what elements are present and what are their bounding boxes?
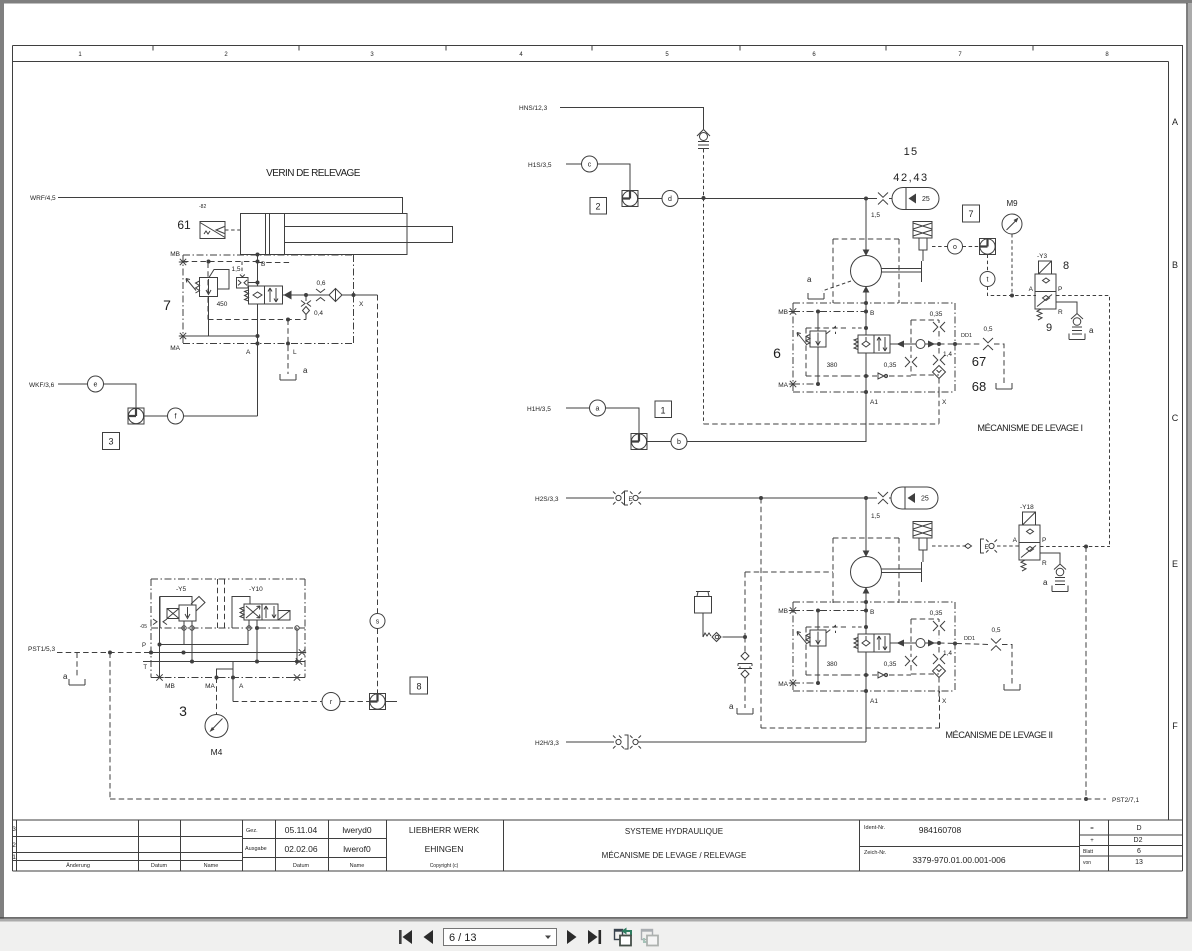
svg-text:6: 6 <box>773 345 781 361</box>
svg-text:=: = <box>1090 826 1094 832</box>
svg-text:o: o <box>953 244 957 251</box>
svg-text:MA: MA <box>170 345 180 352</box>
svg-text:Ausgabe: Ausgabe <box>245 846 267 852</box>
svg-text:1,4: 1,4 <box>943 351 952 358</box>
svg-text:A: A <box>1029 286 1034 293</box>
svg-text:Gez.: Gez. <box>246 828 258 834</box>
svg-text:A: A <box>1172 117 1178 127</box>
svg-text:9: 9 <box>1046 322 1052 334</box>
svg-text:WKF/3,6: WKF/3,6 <box>29 382 55 389</box>
svg-text:3: 3 <box>108 437 113 447</box>
svg-text:von: von <box>1083 860 1091 866</box>
svg-text:61: 61 <box>177 218 191 232</box>
svg-text:Datum: Datum <box>151 863 168 869</box>
svg-text:t: t <box>987 277 989 284</box>
svg-text:b: b <box>677 439 681 446</box>
svg-text:450: 450 <box>217 301 228 308</box>
svg-text:SYSTEME HYDRAULIQUE: SYSTEME HYDRAULIQUE <box>625 827 723 836</box>
svg-text:MA: MA <box>205 683 215 690</box>
svg-text:B: B <box>1172 260 1178 270</box>
svg-text:a: a <box>807 275 812 284</box>
svg-text:1,5: 1,5 <box>871 212 880 219</box>
svg-text:380: 380 <box>827 362 838 369</box>
svg-text:a: a <box>596 406 600 413</box>
svg-text:R: R <box>1058 309 1063 316</box>
svg-text:-Y5: -Y5 <box>176 586 187 593</box>
svg-text:-Y18: -Y18 <box>1020 504 1034 511</box>
svg-text:MB: MB <box>165 683 175 690</box>
svg-text:7: 7 <box>968 209 973 219</box>
svg-text:A: A <box>1013 537 1018 544</box>
svg-text:0,35: 0,35 <box>930 311 943 318</box>
svg-text:M9: M9 <box>1006 199 1018 208</box>
svg-text:0,6: 0,6 <box>316 280 325 287</box>
svg-text:-82: -82 <box>199 204 206 210</box>
svg-text:R: R <box>1042 560 1047 567</box>
svg-text:F: F <box>1172 721 1178 731</box>
svg-text:s: s <box>376 619 380 626</box>
svg-text:P: P <box>1058 286 1062 293</box>
svg-text:VERIN DE RELEVAGE: VERIN DE RELEVAGE <box>266 168 361 179</box>
svg-text:D: D <box>1136 825 1141 832</box>
svg-text:H1H/3,5: H1H/3,5 <box>527 406 551 413</box>
svg-text:0,5: 0,5 <box>983 326 992 333</box>
svg-text:1: 1 <box>12 854 16 861</box>
svg-text:8: 8 <box>416 682 421 692</box>
svg-text:E: E <box>1172 559 1178 569</box>
svg-text:a: a <box>1089 326 1094 335</box>
svg-text:42,43: 42,43 <box>893 172 929 184</box>
svg-text:6: 6 <box>1137 848 1141 855</box>
svg-text:MA: MA <box>778 382 788 389</box>
svg-text:a: a <box>63 672 68 681</box>
svg-text:MÉCANISME DE LEVAGE II: MÉCANISME DE LEVAGE II <box>945 730 1052 740</box>
svg-text:2: 2 <box>595 202 600 212</box>
svg-text:Blatt: Blatt <box>1083 849 1094 855</box>
svg-text:c: c <box>588 162 592 169</box>
svg-text:0,35: 0,35 <box>884 362 897 369</box>
svg-text:PST1/5,3: PST1/5,3 <box>28 646 55 653</box>
svg-text:984160708: 984160708 <box>919 825 962 835</box>
svg-text:lweryd0: lweryd0 <box>342 825 372 835</box>
svg-text:P: P <box>142 643 146 649</box>
svg-text:MÉCANISME DE LEVAGE I: MÉCANISME DE LEVAGE I <box>977 423 1082 433</box>
svg-text:L: L <box>293 349 297 356</box>
svg-text:H1S/3,5: H1S/3,5 <box>528 162 552 169</box>
svg-text:Zeich-Nr.: Zeich-Nr. <box>864 850 887 856</box>
svg-text:05.11.04: 05.11.04 <box>285 825 318 835</box>
svg-text:02.02.06: 02.02.06 <box>284 844 317 854</box>
svg-text:a: a <box>729 702 734 711</box>
svg-text:WRF/4,5: WRF/4,5 <box>30 195 56 202</box>
svg-text:Name: Name <box>204 863 219 869</box>
svg-text:-Y10: -Y10 <box>249 586 263 593</box>
svg-text:DD1: DD1 <box>964 636 975 642</box>
svg-text:A1: A1 <box>870 399 878 406</box>
svg-text:3: 3 <box>12 826 16 833</box>
svg-text:Datum: Datum <box>293 863 310 869</box>
svg-text:A: A <box>239 683 244 690</box>
svg-text:Ident-Nr.: Ident-Nr. <box>864 825 886 831</box>
svg-text:A: A <box>246 349 251 356</box>
svg-text:1,5: 1,5 <box>871 513 880 520</box>
svg-text:X: X <box>359 301 364 308</box>
svg-text:-05: -05 <box>140 624 147 630</box>
svg-text:Name: Name <box>350 863 365 869</box>
svg-text:B: B <box>870 310 874 317</box>
svg-text:a: a <box>1043 578 1048 587</box>
svg-text:d: d <box>668 196 672 203</box>
svg-text:D2: D2 <box>1134 837 1143 844</box>
svg-text:MÉCANISME DE LEVAGE / RELEVAGE: MÉCANISME DE LEVAGE / RELEVAGE <box>602 851 747 860</box>
svg-text:15: 15 <box>904 146 919 158</box>
svg-text:PST2/7,1: PST2/7,1 <box>1112 797 1139 804</box>
svg-text:6 / 13: 6 / 13 <box>449 932 477 944</box>
svg-text:H2H/3,3: H2H/3,3 <box>535 740 559 747</box>
svg-text:8: 8 <box>1063 260 1069 272</box>
svg-text:+: + <box>1090 838 1094 844</box>
svg-text:f: f <box>175 414 177 421</box>
svg-text:3379-970.01.00.001-006: 3379-970.01.00.001-006 <box>912 855 1005 865</box>
svg-text:M4: M4 <box>211 747 223 757</box>
svg-text:2: 2 <box>12 842 16 849</box>
svg-text:67: 67 <box>972 354 986 369</box>
svg-text:C: C <box>1172 413 1179 423</box>
svg-text:P: P <box>1042 537 1046 544</box>
svg-text:H2S/3,3: H2S/3,3 <box>535 496 559 503</box>
svg-text:T: T <box>143 665 147 671</box>
svg-text:Copyright (c): Copyright (c) <box>430 863 459 869</box>
svg-text:7: 7 <box>163 297 171 313</box>
svg-text:13: 13 <box>1135 859 1143 866</box>
svg-text:1,5: 1,5 <box>231 266 240 273</box>
svg-text:3: 3 <box>179 703 187 719</box>
svg-text:0,5: 0,5 <box>991 627 1000 634</box>
svg-text:MB: MB <box>170 251 180 258</box>
svg-text:-Y3: -Y3 <box>1037 253 1048 260</box>
svg-text:EHINGEN: EHINGEN <box>425 844 464 854</box>
svg-text:0,4: 0,4 <box>314 310 323 317</box>
svg-text:X: X <box>942 399 947 406</box>
svg-text:Änderung: Änderung <box>66 862 90 869</box>
svg-text:DD1: DD1 <box>961 333 972 339</box>
svg-text:e: e <box>94 382 98 389</box>
svg-text:LIEBHERR WERK: LIEBHERR WERK <box>409 825 480 835</box>
svg-text:HNS/12,3: HNS/12,3 <box>519 105 548 112</box>
svg-text:1: 1 <box>660 406 665 416</box>
svg-text:a: a <box>303 366 308 375</box>
svg-text:lwerof0: lwerof0 <box>343 844 371 854</box>
svg-text:68: 68 <box>972 379 986 394</box>
svg-text:MB: MB <box>778 309 788 316</box>
